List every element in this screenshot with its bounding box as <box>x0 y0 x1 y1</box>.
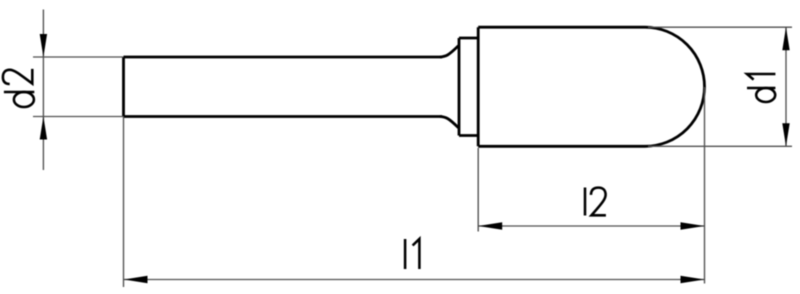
labels drawn as CAD-style stroke glyphs <box>3 69 776 269</box>
arrow d2 bottom (pointing up) <box>40 117 47 140</box>
arrow l2 right (pointing right) <box>681 222 705 229</box>
extension line l2/l1 right <box>704 87 706 284</box>
label l2 <box>585 188 606 216</box>
label d2 (rotated) <box>3 69 34 107</box>
extension line d2 top <box>33 56 124 58</box>
dimension line l1 <box>124 279 705 281</box>
dimension line d2 <box>42 10 44 171</box>
dimension line d1 <box>785 27 787 146</box>
extension line d2 bottom <box>33 116 124 118</box>
head top edge <box>478 26 645 29</box>
arrow l2 left (pointing left) <box>478 222 502 229</box>
collar top edge <box>459 37 478 40</box>
extension line l1 left <box>123 117 125 288</box>
dimension line l2 <box>478 225 704 227</box>
label l1 <box>405 239 419 269</box>
head round nose arc <box>645 27 705 146</box>
fillet top (shank to collar) <box>440 46 458 57</box>
head bottom edge <box>478 145 645 148</box>
arrow l1 left (pointing left) <box>124 276 148 283</box>
extension line d1 bottom <box>648 145 792 147</box>
arrow d2 top (pointing down) <box>40 34 47 57</box>
extension line d1 top <box>648 26 792 28</box>
shank bottom edge <box>124 115 443 118</box>
arrow d1 bottom (pointing down) <box>782 123 789 146</box>
arrow d1 top (pointing up) <box>782 27 789 50</box>
burr body outline (thick object lines) <box>124 27 705 146</box>
arrow l1 right (pointing right) <box>681 276 705 283</box>
collar left face <box>458 38 461 136</box>
shank top edge <box>124 56 443 59</box>
extension line l2 left <box>477 148 479 232</box>
label d1 (rotated) <box>747 74 775 102</box>
head left face <box>477 27 480 146</box>
fillet bottom (shank to collar) <box>440 117 458 128</box>
shank left edge <box>122 57 125 117</box>
collar bottom edge <box>459 134 478 137</box>
